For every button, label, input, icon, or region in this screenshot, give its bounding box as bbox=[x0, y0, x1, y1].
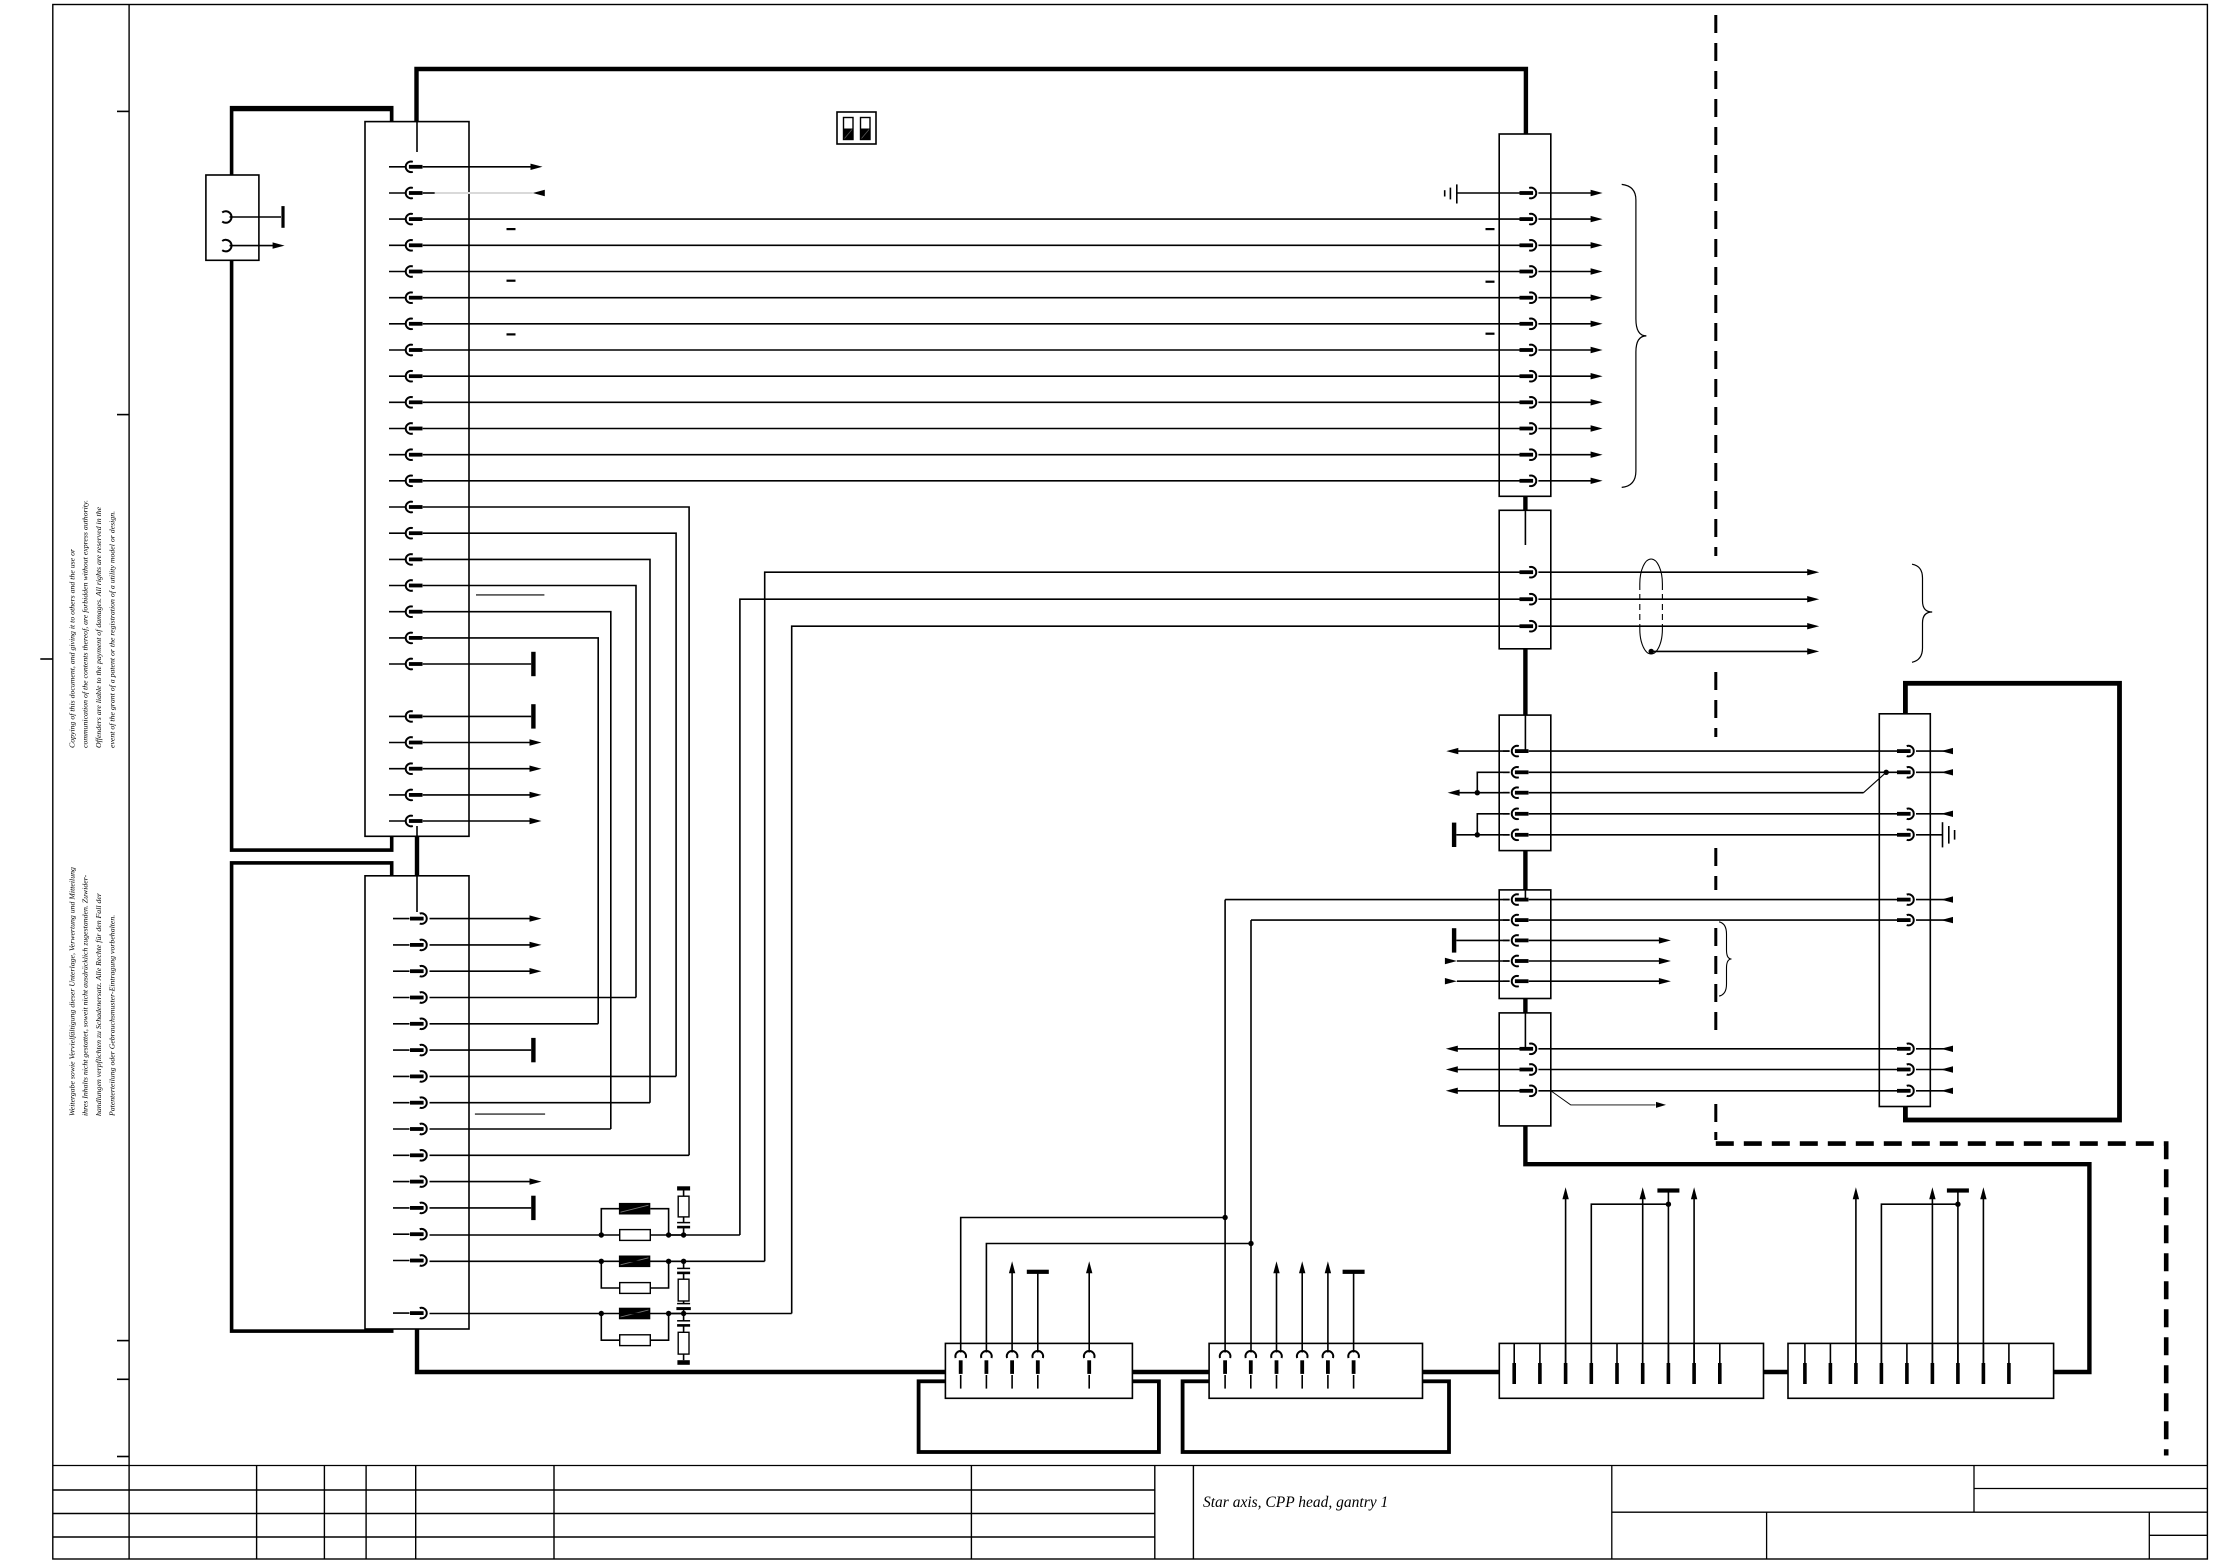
wire thick top-left elbow bbox=[232, 110, 392, 122]
X5 pin 3 bbox=[1529, 1086, 1536, 1097]
wire X1.5 out arrow bbox=[1538, 297, 1592, 299]
wire D.6 to rail bbox=[1353, 1272, 1355, 1353]
title block grid bbox=[53, 1465, 2208, 1467]
riser wire to X2.3 bbox=[792, 626, 1520, 1313]
wire X4.1 to XR.5 bbox=[1529, 899, 1897, 901]
svg-text:communication of the contents: communication of the contents thereof, a… bbox=[81, 500, 90, 748]
terminator bar D.6 bbox=[1343, 1270, 1365, 1274]
X1 pin 4 bbox=[1529, 266, 1536, 277]
wire K1.8 to X1 bbox=[423, 349, 1520, 351]
wire B.8 up arrow bbox=[1982, 1197, 1984, 1364]
X3 pin 5 bbox=[1503, 834, 1510, 836]
terminator bar P1.1 bbox=[281, 206, 284, 228]
capacitor CV2 bbox=[683, 1261, 685, 1268]
arrow into right unit bbox=[1916, 1069, 1952, 1071]
terminator bar RC1 top bbox=[677, 1186, 690, 1190]
wire K1.11 to X1 bbox=[423, 428, 1520, 430]
wire A.7 to rail bbox=[1667, 1192, 1669, 1364]
wire X1.8 out arrow bbox=[1538, 375, 1592, 377]
wire K1.20 to terminator bbox=[423, 663, 532, 665]
K2 pin 5 bbox=[393, 1023, 410, 1025]
wire X1.12 out arrow bbox=[1538, 480, 1592, 482]
wire K1.17 L-turn down bbox=[423, 586, 636, 998]
K1 pin 21 bbox=[389, 715, 406, 717]
wire B.6 up arrow bbox=[1931, 1197, 1933, 1364]
margin line bbox=[128, 5, 130, 1560]
X2 pin 2 bbox=[1529, 594, 1536, 605]
X1 pin 11 bbox=[1529, 449, 1536, 460]
fold mark tick bbox=[117, 1456, 129, 1458]
wire K1.2 stub bbox=[423, 192, 435, 194]
wire X5.1 left arrow bbox=[1456, 1048, 1519, 1050]
svg-text:ihres Inhalts nicht gestattet,: ihres Inhalts nicht gestattet, soweit ni… bbox=[81, 874, 90, 1116]
wire K1.24 out arrow bbox=[423, 768, 531, 770]
svg-text:Copying of this document, and: Copying of this document, and giving it … bbox=[67, 548, 76, 748]
wire X5.3 to XR bbox=[1538, 1090, 1897, 1092]
unit enclosure box lower-left bbox=[232, 863, 392, 1331]
P1 pin 2 bbox=[222, 240, 231, 252]
label underline upper bbox=[476, 594, 544, 596]
svg-text:Weitergabe sowie Vervielfältig: Weitergabe sowie Vervielfältigung dieser… bbox=[67, 867, 76, 1116]
wire X3.5 to XR.4 bbox=[1529, 834, 1897, 836]
wire X1.9 out arrow bbox=[1538, 401, 1592, 403]
wire K2.16 row bbox=[430, 1313, 602, 1315]
K2 pin 3 bbox=[393, 970, 410, 972]
K1 pin 15 bbox=[389, 532, 406, 534]
X1 pin 5 bbox=[1529, 292, 1536, 303]
wire K1.19 L-turn down bbox=[423, 638, 599, 1024]
wire thick main top edge bbox=[417, 69, 1526, 134]
wire thick stub K1-K2 bbox=[415, 836, 419, 876]
wire K1.16 L-turn down bbox=[423, 559, 650, 1102]
wire K2.14 row bbox=[430, 1260, 602, 1262]
wire shield drain arrow bbox=[1651, 650, 1809, 652]
wire K1.13 to X1 bbox=[423, 480, 1520, 482]
junction dot riser D.2 bbox=[1248, 1241, 1253, 1246]
X4 pin 4 bbox=[1503, 960, 1510, 962]
junction dot RC3 bbox=[681, 1311, 686, 1316]
wire X1.10 out arrow bbox=[1538, 428, 1592, 430]
svg-text:handlungen verpflichten zu Sch: handlungen verpflichten zu Schadenersatz… bbox=[94, 892, 103, 1116]
wire K2.11 out arrow bbox=[430, 1181, 532, 1183]
A pin 8 bbox=[1693, 1343, 1695, 1363]
terminator bar X3.5 bbox=[1452, 823, 1456, 847]
wire K2.4 to riser bbox=[430, 997, 637, 999]
B pin 7 bbox=[1957, 1343, 1959, 1363]
A pin 3 bbox=[1565, 1343, 1567, 1363]
A pin 7 bbox=[1667, 1343, 1669, 1363]
wire X4.1 to riser bbox=[1225, 899, 1510, 901]
wire number dash left bbox=[507, 280, 516, 282]
K2 pin 12 bbox=[393, 1207, 410, 1209]
wire thick stub X4-X5 bbox=[1523, 999, 1527, 1013]
connector B body bbox=[1788, 1343, 2054, 1398]
connector C body bbox=[945, 1343, 1132, 1398]
riser wire X4.2 to D.2 bbox=[1250, 920, 1252, 1352]
A pin 9 bbox=[1719, 1343, 1721, 1363]
B pin 9 bbox=[2008, 1343, 2010, 1363]
D pin 3 bbox=[1271, 1351, 1282, 1358]
dashed demarcation line vertical bbox=[1714, 1104, 1717, 1140]
wire X5.3 left arrow bbox=[1456, 1090, 1519, 1092]
XR pin 4 bbox=[1907, 829, 1914, 840]
wire K1.3 to X1 bbox=[423, 218, 1520, 220]
wire RN1 to riser bbox=[669, 1234, 740, 1236]
K1 pin 18 bbox=[389, 611, 406, 613]
K1 pin 19 bbox=[389, 637, 406, 639]
terminator bar bbox=[531, 1038, 535, 1062]
wire X1.6 out arrow bbox=[1538, 323, 1592, 325]
DIP switch S1 bbox=[837, 112, 876, 144]
D pin 1 bbox=[1220, 1351, 1231, 1358]
wire thick right elbow from connector X5 bbox=[1525, 1126, 2089, 1372]
wire X1.7 out arrow bbox=[1538, 349, 1592, 351]
wire K1.22 to terminator bbox=[423, 715, 532, 717]
arrow into right unit bbox=[1916, 813, 1952, 815]
C pin 2 bbox=[981, 1351, 992, 1358]
A pin 5 bbox=[1616, 1343, 1618, 1363]
X3 pin 1 bbox=[1503, 750, 1510, 752]
resistor network RN1 (R above line) bbox=[601, 1209, 619, 1235]
wire B.4 loop bbox=[1881, 1204, 1958, 1364]
arrow into right unit bbox=[1916, 1048, 1952, 1050]
terminator bar bbox=[531, 652, 535, 676]
wire X3.1 to XR.1 bbox=[1529, 750, 1897, 752]
wire K1.12 to X1 bbox=[423, 454, 1520, 456]
K2 pin 15 bbox=[393, 1312, 410, 1314]
wire K1.2 pale return bbox=[435, 192, 533, 194]
B pin 5 bbox=[1906, 1343, 1908, 1363]
connector X5 body bbox=[1499, 1013, 1551, 1126]
wire K1.6 to X1 bbox=[423, 297, 1520, 299]
K1 pin 4 bbox=[389, 244, 406, 246]
K2 pin 1 bbox=[393, 918, 410, 920]
X3 pin 3 bbox=[1503, 792, 1510, 794]
wire X3.3 left arrow bbox=[1458, 792, 1510, 794]
centre mark tick bbox=[40, 658, 53, 660]
wire X1.2 out arrow bbox=[1538, 218, 1592, 220]
label underline lower bbox=[475, 1113, 545, 1115]
wire K1.9 to X1 bbox=[423, 375, 1520, 377]
fold mark tick bbox=[117, 110, 129, 112]
wire thick stub X1-X2 bbox=[1523, 496, 1527, 510]
shield drain junction dot bbox=[1649, 649, 1654, 654]
dashed demarcation line vertical bbox=[1714, 15, 1717, 556]
interface box P1 (2-pin) bbox=[206, 175, 259, 260]
wire X3.5 bbox=[1456, 834, 1509, 836]
wire C.1 elbow to riser bbox=[961, 1218, 1225, 1353]
K1 pin 3 bbox=[389, 218, 406, 220]
wire B.3 up arrow bbox=[1855, 1197, 1857, 1364]
wire thick bottom border C-D bbox=[1132, 1370, 1209, 1374]
terminator bar C.4 bbox=[1027, 1270, 1049, 1274]
svg-text:Offenders are liable to the pa: Offenders are liable to the payment of d… bbox=[94, 506, 103, 748]
K1 pin 13 bbox=[389, 480, 406, 482]
B pin 2 bbox=[1829, 1343, 1831, 1363]
K1 pin 11 bbox=[389, 428, 406, 430]
wire X3.4 elbow bbox=[1477, 814, 1509, 835]
A pin 1 bbox=[1513, 1343, 1515, 1363]
terminator bar B.7 bbox=[1947, 1188, 1969, 1192]
wire number dash right bbox=[1486, 333, 1495, 335]
wire RN2 to riser bbox=[669, 1260, 765, 1262]
D pin 6 bbox=[1348, 1351, 1359, 1358]
wire number dash right bbox=[1486, 228, 1495, 230]
pin lead stub X2 top bbox=[1524, 510, 1526, 545]
arrow into right unit bbox=[1916, 1090, 1952, 1092]
arrow into right unit bbox=[1916, 899, 1952, 901]
X3 pin 2 bbox=[1503, 771, 1510, 773]
resistor RV1 bbox=[683, 1191, 685, 1197]
X3 pin 4 bbox=[1503, 813, 1510, 815]
wire K1.23 out arrow bbox=[423, 742, 531, 744]
wire diagonal X3.3 to XR.2 bbox=[1864, 772, 1887, 792]
wire X3.2 to XR.2 bbox=[1529, 771, 1897, 773]
C pin 4 bbox=[1033, 1351, 1044, 1358]
wire A.6 up arrow bbox=[1642, 1197, 1644, 1364]
wire K2.6 to terminator bbox=[430, 1049, 532, 1051]
B pin 6 bbox=[1931, 1343, 1933, 1363]
wire K1.25 out arrow bbox=[423, 794, 531, 796]
P1 pin 1 bbox=[222, 211, 231, 223]
connector K2 body bbox=[365, 876, 469, 1329]
wire C.5 up arrow bbox=[1088, 1271, 1090, 1353]
pin lead stub K1 bottom bbox=[416, 826, 418, 836]
capacitor CV1 bbox=[677, 1222, 690, 1224]
A pin 6 bbox=[1642, 1343, 1644, 1363]
wire X3.3 to diagonal bbox=[1529, 792, 1864, 794]
wire K1.18 L-turn down bbox=[423, 612, 611, 1129]
A pin 2 bbox=[1539, 1343, 1541, 1363]
connector X1 body bbox=[1499, 134, 1551, 496]
K1 pin 22 bbox=[389, 742, 406, 744]
wire C.4 to rail bbox=[1037, 1272, 1039, 1353]
wire K2.2 out arrow bbox=[430, 944, 532, 946]
K1 pin 24 bbox=[389, 794, 406, 796]
dashed demarcation line vertical bbox=[1714, 848, 1717, 890]
wire X5.2 to XR bbox=[1538, 1069, 1897, 1071]
wire K1.14 L-turn down bbox=[423, 507, 689, 1155]
K1 pin 25 bbox=[389, 820, 406, 822]
pin lead stub X4 top bbox=[1524, 890, 1526, 900]
resistor network RN2 (R below line) bbox=[619, 1256, 650, 1268]
X1 pin 6 bbox=[1529, 318, 1536, 329]
XR pin 9 bbox=[1907, 1086, 1914, 1097]
wire K2.7 to riser bbox=[430, 1075, 677, 1077]
B pin 1 bbox=[1804, 1343, 1806, 1363]
wire C.3 up arrow bbox=[1011, 1271, 1013, 1353]
riser wire to X2.2 bbox=[740, 599, 1520, 1235]
arrow into right unit bbox=[1916, 919, 1952, 921]
dashed demarcation line vertical bbox=[1714, 928, 1717, 1040]
fold mark tick bbox=[117, 1340, 129, 1342]
dashed demarcation elbow bbox=[1716, 1144, 2166, 1456]
wire A.3 up arrow bbox=[1565, 1197, 1567, 1364]
wire X4.2 to XR.6 bbox=[1529, 919, 1897, 921]
wire K1.26 out arrow bbox=[423, 820, 531, 822]
arrow into right unit bbox=[1916, 771, 1952, 773]
wire K2.1 out arrow bbox=[430, 918, 532, 920]
wire X1.3 out arrow bbox=[1538, 244, 1592, 246]
wire RN3 to riser bbox=[669, 1313, 792, 1315]
wire X5.2 left arrow bbox=[1456, 1069, 1519, 1071]
XR pin 5 bbox=[1907, 894, 1914, 905]
wire X4.4 out arrow bbox=[1529, 960, 1661, 962]
X1 pin 2 bbox=[1529, 214, 1536, 225]
B pin 8 bbox=[1982, 1343, 1984, 1363]
junction dot riser D.1 bbox=[1222, 1215, 1227, 1220]
wire K2.3 out arrow bbox=[430, 970, 532, 972]
X4 pin 1 bbox=[1503, 899, 1510, 901]
wire C.2 elbow to riser bbox=[986, 1244, 1251, 1353]
module box under connector D bbox=[1183, 1381, 1449, 1452]
K2 pin 9 bbox=[393, 1128, 410, 1130]
X5 pin 1 bbox=[1529, 1044, 1536, 1055]
wire K1.15 L-turn down bbox=[423, 533, 676, 1076]
wire thick stub X2-X3 bbox=[1523, 649, 1527, 715]
wire K1.10 to X1 bbox=[423, 401, 1520, 403]
X2 pin 3 bbox=[1529, 621, 1536, 632]
D pin 2 bbox=[1246, 1351, 1257, 1358]
wire K2.8 to riser bbox=[430, 1102, 651, 1104]
wire thick stub X3-X4 bbox=[1523, 851, 1527, 890]
K2 pin 10 bbox=[393, 1154, 410, 1156]
wire K2.5 to riser bbox=[430, 1023, 599, 1025]
K1 pin 17 bbox=[389, 585, 406, 587]
wire D.5 up arrow bbox=[1327, 1271, 1329, 1353]
svg-text:event of the grant of a patent: event of the grant of a patent or the re… bbox=[107, 511, 116, 748]
junction dot X3.4/X3.5 bbox=[1475, 832, 1480, 837]
K1 pin 5 bbox=[389, 271, 406, 273]
K1 pin 2 bbox=[389, 192, 406, 194]
pin lead stub K1 top bbox=[416, 122, 418, 152]
wire thick bottom border D-A bbox=[1423, 1370, 1500, 1374]
wire thick bottom border A-B bbox=[1764, 1370, 1789, 1374]
K2 pin 6 bbox=[393, 1049, 410, 1051]
connector shell line X5 bbox=[1551, 1091, 1656, 1105]
wire A.8 up arrow bbox=[1693, 1197, 1695, 1364]
connector D body bbox=[1209, 1343, 1422, 1398]
junction dot B.7 bbox=[1955, 1202, 1960, 1207]
K1 pin 20 bbox=[389, 663, 406, 665]
capacitor CV4 bbox=[683, 1314, 685, 1321]
K2 pin 4 bbox=[393, 997, 410, 999]
connector X2 body bbox=[1499, 510, 1551, 649]
resistor network RN3 (R below line) bbox=[619, 1308, 650, 1320]
wire K1.7 to X1 bbox=[423, 323, 1520, 325]
junction dot X3.2/X3.3 bbox=[1475, 790, 1480, 795]
B pin 4 bbox=[1880, 1343, 1882, 1363]
wire P1.2 arrow bbox=[230, 245, 276, 247]
K2 pin 11 bbox=[393, 1181, 410, 1183]
pin lead stub X3 top bbox=[1524, 715, 1526, 751]
X1 pin 8 bbox=[1529, 371, 1536, 382]
brace group X2 signals bbox=[1912, 564, 1932, 662]
wire number dash left bbox=[507, 333, 516, 335]
X1 pin 9 bbox=[1529, 397, 1536, 408]
wire P1.1 to terminator bbox=[230, 216, 282, 218]
terminator bar X4.3 bbox=[1452, 928, 1456, 952]
capacitor CV3 bbox=[683, 1301, 685, 1303]
terminator bar bbox=[531, 1196, 535, 1220]
chassis ground at X1.1 bbox=[1444, 190, 1446, 196]
K2 pin 14 bbox=[393, 1260, 410, 1262]
D pin 4 bbox=[1297, 1351, 1308, 1358]
C pin 3 bbox=[1007, 1351, 1018, 1358]
wire D.4 up arrow bbox=[1301, 1271, 1303, 1353]
junction dot RC2 top bbox=[681, 1259, 686, 1264]
B pin 3 bbox=[1855, 1343, 1857, 1363]
wire K1.1 out arrow bbox=[423, 166, 532, 168]
wire X3.4 to XR.3 bbox=[1529, 813, 1897, 815]
K2 pin 7 bbox=[393, 1075, 410, 1077]
resistor RV2 bbox=[678, 1279, 689, 1301]
X1 pin 10 bbox=[1529, 423, 1536, 434]
riser wire X4.1 to D.1 bbox=[1224, 900, 1226, 1353]
K1 pin 1 bbox=[389, 166, 406, 168]
D pin 5 bbox=[1323, 1351, 1334, 1358]
wire B.7 to rail bbox=[1957, 1192, 1959, 1364]
wire X5.1 to XR bbox=[1538, 1048, 1897, 1050]
unit enclosure box upper-left bbox=[232, 108, 392, 850]
connector XR body (right) bbox=[1879, 714, 1930, 1107]
wire X1.1 out arrow bbox=[1538, 192, 1592, 194]
XR pin 8 bbox=[1907, 1064, 1914, 1075]
K1 pin 8 bbox=[389, 349, 406, 351]
junction dot XR.2 bbox=[1884, 770, 1889, 775]
wire number dash left bbox=[507, 228, 516, 230]
pin lead stub K2 top bbox=[416, 876, 418, 912]
connector X3 body bbox=[1499, 715, 1551, 851]
C pin 1 bbox=[955, 1351, 966, 1358]
X1 pin 12 bbox=[1529, 475, 1536, 486]
wire X4.5 out arrow bbox=[1529, 980, 1661, 982]
X1 pin 1 bbox=[1529, 188, 1536, 199]
junction dot A.7 bbox=[1666, 1202, 1671, 1207]
XR pin 2 bbox=[1907, 767, 1914, 778]
junction dot RC1 bbox=[681, 1232, 686, 1237]
wire X3.2 elbow bbox=[1477, 772, 1509, 792]
fold mark tick bbox=[117, 1378, 129, 1380]
A pin 4 bbox=[1590, 1343, 1592, 1363]
wire X4.2 to riser bbox=[1251, 919, 1510, 921]
X1 pin 3 bbox=[1529, 240, 1536, 251]
wire X2.3 out arrow bbox=[1538, 625, 1808, 627]
fold mark tick bbox=[117, 414, 129, 416]
wire K2.10 to riser bbox=[430, 1154, 690, 1156]
X1 pin 7 bbox=[1529, 345, 1536, 356]
wire X2.1 out arrow bbox=[1538, 571, 1808, 573]
terminator bar bbox=[531, 704, 535, 728]
chassis ground at XR.4 bbox=[1916, 834, 1943, 836]
K1 pin 12 bbox=[389, 454, 406, 456]
wire thick bottom-left elbow bbox=[417, 1329, 945, 1372]
X4 pin 3 bbox=[1503, 939, 1510, 941]
wire X4.3 out arrow bbox=[1529, 939, 1661, 941]
wire X1.4 out arrow bbox=[1538, 271, 1592, 273]
pin lead stub X5 top bbox=[1524, 1013, 1526, 1049]
K1 pin 9 bbox=[389, 375, 406, 377]
X2 pin 1 bbox=[1529, 567, 1536, 578]
incoming arrow X4.5 bbox=[1445, 978, 1457, 984]
dashed demarcation line vertical bbox=[1714, 672, 1717, 737]
wire K2.13 row bbox=[430, 1234, 602, 1236]
module box under connector C bbox=[919, 1381, 1159, 1452]
terminator bar A.7 bbox=[1657, 1188, 1679, 1192]
unit enclosure box right bbox=[1905, 683, 2119, 1120]
wire K1.5 to X1 bbox=[423, 271, 1520, 273]
K1 pin 6 bbox=[389, 297, 406, 299]
